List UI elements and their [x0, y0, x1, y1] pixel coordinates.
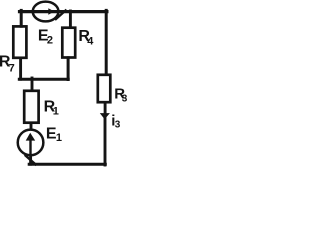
wire top rail — [20, 10, 107, 13]
label E1 — [46, 126, 62, 144]
E1 arrow — [29, 140, 31, 154]
E2 arrow — [34, 10, 50, 12]
resistor R4 — [62, 28, 75, 58]
wire diagonal tick top — [56, 10, 66, 19]
label R1 — [44, 99, 59, 118]
resistor R1 — [24, 91, 38, 123]
svg-text:3: 3 — [122, 94, 128, 105]
wire R1 to E1 stub — [30, 123, 33, 129]
wire left rail upper — [20, 10, 23, 26]
resistor R3 — [98, 75, 111, 102]
wire right rail lower — [104, 118, 107, 165]
label R3 — [114, 85, 128, 104]
svg-text:4: 4 — [87, 36, 94, 48]
svg-text:7: 7 — [9, 62, 15, 74]
wire R4 top stub — [69, 11, 72, 27]
wire bottom rail — [29, 163, 105, 166]
EMF source E1 — [18, 130, 44, 156]
wire E1 bottom stub — [29, 156, 32, 165]
svg-text:1: 1 — [53, 105, 59, 117]
label R7 — [0, 53, 15, 74]
wire left rail lower — [19, 58, 22, 79]
wire R1 top stub — [31, 78, 34, 90]
EMF source E2 — [33, 2, 59, 22]
resistor R7 — [13, 26, 26, 57]
wire R3 bottom stub — [104, 103, 107, 114]
label R4 — [78, 28, 94, 48]
wire diagonal tick bottom — [26, 156, 36, 165]
svg-text:3: 3 — [115, 119, 121, 130]
label i3 — [111, 113, 121, 131]
wire right rail upper — [105, 10, 108, 74]
current arrow i3 — [100, 113, 110, 119]
svg-text:1: 1 — [56, 132, 62, 144]
wire middle horizontal — [19, 78, 68, 81]
wire R4 bottom stub — [67, 58, 70, 80]
label E2 — [38, 28, 53, 47]
svg-text:2: 2 — [47, 34, 53, 46]
